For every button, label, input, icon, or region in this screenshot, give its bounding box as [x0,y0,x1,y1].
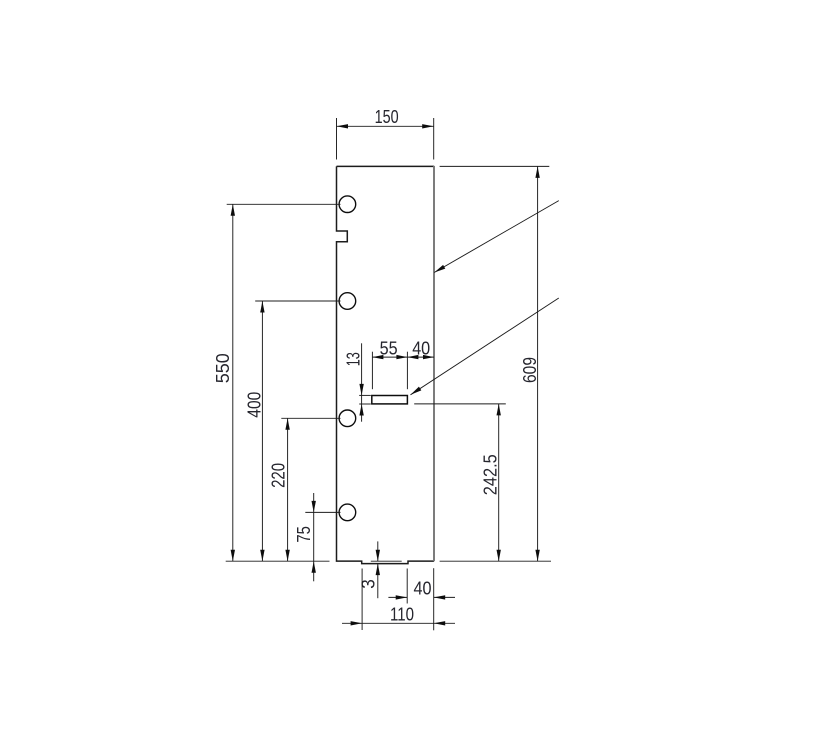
hole H1 extension line [227,203,341,205]
svg-text:609: 609 [520,357,540,383]
dimension 40 (slot to right edge) [407,355,418,359]
svg-text:40: 40 [412,339,430,359]
hole H2 extension line [255,300,340,302]
svg-text:220: 220 [269,463,289,488]
svg-text:75: 75 [294,526,314,543]
leader callout to right edge [434,201,559,273]
dimension 40 (bottom, tab to right edge, arrows outside) [388,596,455,598]
dimension 400 (hole H2 height) [261,301,263,561]
bottom extension lines (tab/edge) [362,568,434,630]
svg-text:400: 400 [244,392,264,418]
dimension 242.5 (slot bottom to part bottom) [414,404,506,561]
dimension 110 (bottom width, arrows outside) [342,622,455,624]
dimension 55 (slot width) [372,355,383,359]
svg-text:150: 150 [375,107,399,127]
dimension 220 (hole H3 height) [287,418,289,561]
hole H1 [339,196,356,213]
dimension 13 (slot height, arrows outside) [359,343,371,421]
svg-text:13: 13 [343,352,363,366]
svg-text:550: 550 [213,353,233,383]
svg-text:242.5: 242.5 [481,454,501,495]
dimension 550 (hole H1 height) [232,204,234,561]
leader callout to slot [411,298,559,395]
svg-text:3: 3 [359,579,379,589]
dimension 609 (right overall height) [440,166,551,561]
svg-text:55: 55 [380,339,398,359]
part outline (plate profile with left notch and bottom tab) [337,166,435,563]
hole H3 extension line [281,417,340,419]
bottom-left datum extension line [226,560,330,562]
hole H2 [339,293,356,310]
right edge (highlighted gray edge) [433,166,435,561]
hole H4 [339,504,356,521]
dimension 3 (tab depth, arrows outside) [371,541,402,598]
hole H4 extension line [305,511,340,513]
svg-text:110: 110 [390,604,414,624]
dimension 75 (hole H4 height, arrows outside) [313,493,315,581]
slot extension lines (55/40) [372,352,434,390]
hole H3 [339,410,356,427]
dimension 150 (top width) [337,118,434,160]
svg-text:40: 40 [414,579,432,599]
slot (rectangular cutout) [372,396,408,404]
